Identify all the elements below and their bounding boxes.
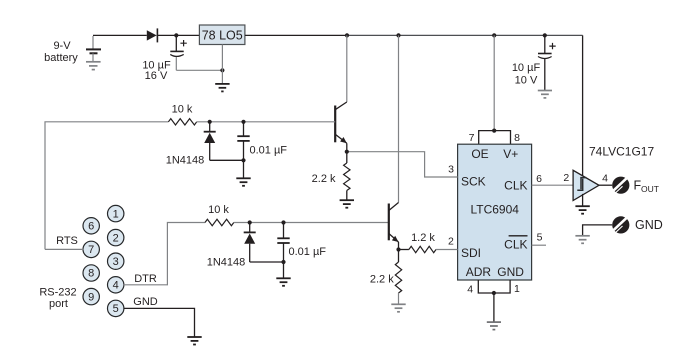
svg-text:78 LO5: 78 LO5: [202, 29, 243, 43]
resistor R3 2.2k: [312, 152, 350, 200]
wire CLK out to buffer: [532, 184, 574, 186]
svg-text:2.2 k: 2.2 k: [370, 273, 394, 285]
wire buffer gnd: [582, 194, 584, 206]
wire R2 to Q2 base: [234, 222, 389, 224]
wire GND net from pin5: [124, 308, 195, 336]
wire D3 to C3 bottom: [250, 261, 284, 263]
svg-text:1: 1: [113, 208, 119, 220]
svg-text:7: 7: [469, 132, 475, 144]
svg-text:RS-232: RS-232: [39, 287, 76, 299]
transistor Q1: [335, 102, 347, 152]
svg-text:10 V: 10 V: [515, 74, 538, 86]
node Q1 emitter junction: [345, 150, 349, 154]
connector GND: [612, 216, 663, 233]
diode D3 1N4148: [207, 223, 256, 269]
node pins 7-8 tie: [492, 129, 496, 133]
wire Q1 collector riser: [346, 35, 348, 102]
svg-text:0.01 µF: 0.01 µF: [250, 144, 288, 156]
node C3 bottom junction: [281, 260, 285, 264]
IC U1 LTC6904: [458, 144, 532, 280]
svg-text:8: 8: [514, 132, 520, 144]
wire pin7-pin8 tie: [479, 131, 511, 145]
svg-text:2: 2: [563, 172, 569, 184]
diode D1: [147, 28, 158, 42]
node ADR-GND junction: [492, 291, 496, 295]
resistor R1 10 k: [168, 103, 196, 125]
RS-232 port connector pins: [39, 205, 124, 316]
ground (buffer): [575, 206, 589, 214]
svg-text:1.2 k: 1.2 k: [411, 232, 435, 244]
ground (GND connector): [575, 236, 589, 244]
wire pin7 RTS: [45, 248, 83, 250]
wire buffer output: [599, 184, 612, 186]
capacitor C1 10uF 16V: [142, 35, 186, 81]
regulator U2 78 LO5: [199, 25, 245, 83]
svg-text:2: 2: [448, 236, 454, 248]
svg-text:ADR: ADR: [466, 265, 492, 279]
svg-text:10 µF: 10 µF: [512, 62, 541, 74]
svg-text:16 V: 16 V: [145, 70, 168, 82]
svg-text:CLK: CLK: [504, 179, 527, 193]
capacitor C3 0.01uF: [277, 223, 326, 263]
node D3 junction: [248, 220, 252, 224]
svg-text:5: 5: [113, 303, 119, 315]
node C2 bottom junction: [241, 158, 245, 162]
node regulator gnd junction: [220, 68, 224, 72]
svg-text:4: 4: [113, 280, 119, 292]
node input junction: [174, 33, 178, 37]
svg-text:2.2 k: 2.2 k: [312, 173, 336, 185]
wire V+ riser: [493, 35, 495, 130]
svg-text:SCK: SCK: [461, 175, 486, 189]
wire 5V rail right: [347, 34, 583, 36]
svg-text:4: 4: [602, 172, 608, 184]
svg-text:V+: V+: [503, 147, 518, 161]
svg-text:GND: GND: [635, 218, 663, 232]
svg-text:74LVC1G17: 74LVC1G17: [589, 145, 654, 159]
wire rail drop to buffer: [582, 35, 584, 177]
svg-text:8: 8: [88, 268, 94, 280]
svg-text:3: 3: [113, 256, 119, 268]
buffer U3 74LVC1G17: [573, 145, 654, 201]
node C2 junction: [241, 120, 245, 124]
svg-text:6: 6: [88, 221, 94, 233]
wire to ground: [283, 262, 285, 278]
svg-text:10 k: 10 k: [172, 103, 193, 115]
svg-text:9-V: 9-V: [53, 40, 71, 52]
wire cap to regulator ground pin: [176, 69, 222, 71]
wire to ground: [243, 160, 245, 178]
svg-text:DTR: DTR: [134, 273, 157, 285]
node Q2 emitter junction: [396, 247, 400, 251]
ground (C3): [276, 278, 290, 286]
wire Q2 collector riser: [398, 35, 400, 202]
wire ADR-GND tie: [478, 280, 510, 293]
wire diode to regulator: [157, 34, 200, 36]
svg-text:CLK: CLK: [504, 237, 527, 251]
ground (regulator): [215, 84, 229, 92]
wire CLKbar stub pin 5: [532, 244, 546, 246]
diode D2 1N4148: [166, 122, 216, 167]
svg-text:2: 2: [113, 232, 119, 244]
svg-text:7: 7: [88, 244, 94, 256]
node rail junctions: [345, 33, 349, 37]
svg-text:4: 4: [467, 284, 473, 296]
svg-text:battery: battery: [44, 52, 78, 64]
svg-text:1N4148: 1N4148: [207, 256, 246, 268]
connector FOUT: [612, 177, 659, 194]
resistor R4 1.2k: [399, 232, 458, 253]
node C3 junction: [281, 220, 285, 224]
node D2 junction: [208, 120, 212, 124]
wire SCK net from Q1 emitter: [347, 152, 458, 177]
svg-text:1: 1: [514, 283, 520, 295]
svg-text:6: 6: [536, 173, 542, 185]
capacitor C2 0.01uF: [237, 122, 287, 161]
ground (C2): [236, 178, 250, 186]
wire to ground: [493, 293, 495, 322]
svg-text:RTS: RTS: [56, 235, 78, 247]
svg-text:1N4148: 1N4148: [166, 155, 205, 167]
svg-text:5: 5: [537, 232, 543, 244]
wire R1 to Q1 base: [197, 121, 336, 123]
resistor R2 10 k: [205, 204, 234, 226]
svg-text:3: 3: [448, 164, 454, 176]
transistor Q2: [389, 203, 399, 250]
svg-text:GND: GND: [497, 265, 524, 279]
resistor R5 2.2k: [370, 250, 402, 304]
battery B1 9-V: [44, 36, 101, 64]
wire D2 to C2 bottom: [210, 159, 244, 161]
ground (R5): [391, 304, 405, 312]
wire battery to diode: [93, 34, 147, 36]
wire GND connector: [583, 225, 613, 236]
svg-text:GND: GND: [133, 296, 158, 308]
svg-text:LTC6904: LTC6904: [470, 203, 519, 217]
ground (LTC6904): [487, 322, 501, 330]
svg-text:10 k: 10 k: [208, 204, 229, 216]
svg-text:9: 9: [88, 291, 94, 303]
svg-text:OUT: OUT: [641, 184, 659, 194]
wire DTR net: [124, 223, 205, 285]
svg-text:port: port: [49, 298, 68, 310]
svg-text:SDI: SDI: [461, 246, 481, 260]
ground (battery): [86, 62, 101, 70]
ground (R3): [340, 200, 354, 208]
svg-text:0.01 µF: 0.01 µF: [289, 246, 327, 258]
ground (C4): [538, 91, 552, 98]
svg-text:OE: OE: [471, 147, 488, 161]
wire 5V rail: [245, 34, 347, 36]
capacitor C4 10uF 10V: [512, 35, 556, 90]
ground (pin5): [187, 337, 201, 345]
wire RTS net vertical: [45, 122, 168, 250]
